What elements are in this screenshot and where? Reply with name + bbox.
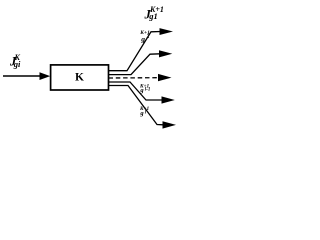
arrowhead output 5 <box>163 121 177 128</box>
svg-text:g1: g1 <box>148 11 158 21</box>
svg-text:gi: gi <box>13 59 21 69</box>
node g^2 label <box>139 30 150 44</box>
arrowhead output 3 <box>158 74 172 81</box>
box K <box>51 65 109 90</box>
node g^l label <box>139 106 150 117</box>
arrowhead output 1 <box>160 28 174 35</box>
wire dashed output 3 <box>109 77 159 79</box>
arrowhead output 4 <box>162 96 175 103</box>
svg-text:g: g <box>139 87 144 94</box>
wire to output 5 <box>109 86 164 125</box>
arrowhead output 2 <box>159 50 172 57</box>
svg-text:l-1: l-1 <box>145 87 151 92</box>
svg-text:g: g <box>139 110 144 117</box>
wire to output 2 <box>109 54 161 75</box>
node J^{K+1}_{g1} label <box>144 5 164 22</box>
svg-text:K: K <box>75 72 84 84</box>
wire input arrow <box>3 72 50 80</box>
wire to output 4 <box>109 82 163 100</box>
node J^K_gi input label <box>9 53 21 69</box>
svg-text:2: 2 <box>146 34 150 40</box>
wire to output 1 <box>109 32 162 71</box>
svg-text:g: g <box>140 35 145 44</box>
node g^{l-1} label <box>139 83 150 94</box>
